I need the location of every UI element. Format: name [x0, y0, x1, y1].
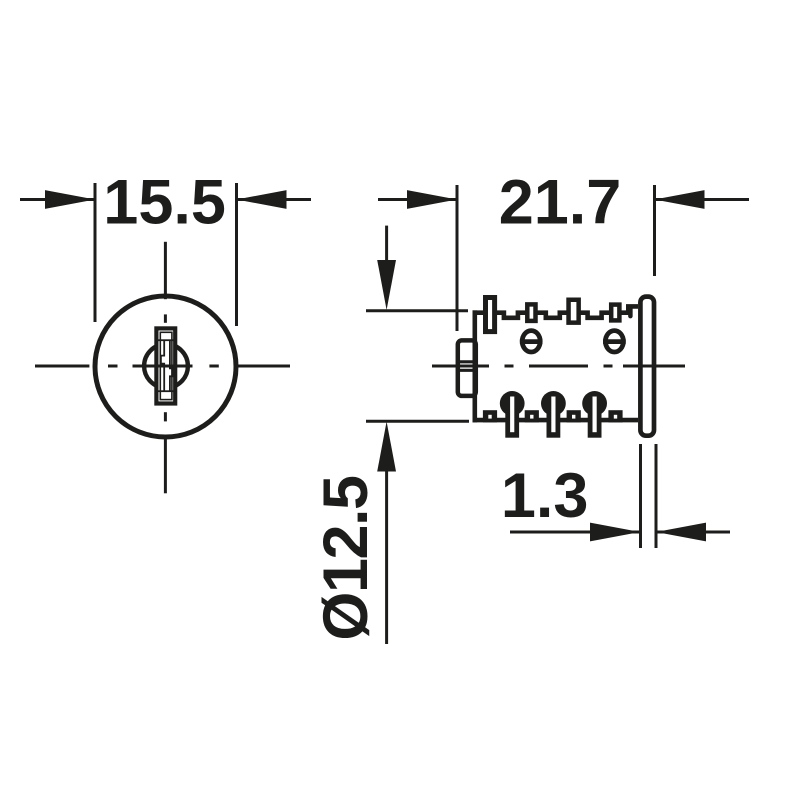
dimension 1.3 arrowhead left	[590, 523, 640, 542]
horizontal centerline left segment	[35, 365, 89, 368]
bottom edge tab 4	[608, 410, 622, 422]
dimension 1.3 leader line right	[656, 531, 730, 534]
dimension 15.5 arrowhead left	[45, 190, 95, 209]
screw head 1 ellipse	[522, 331, 540, 352]
dimension 21.7 extension line right	[653, 185, 656, 276]
plug circle	[144, 344, 188, 388]
bottom pin 2 slit	[551, 397, 555, 433]
side view centerline dot 2	[604, 365, 613, 368]
svg-text:15.5: 15.5	[103, 167, 226, 237]
vertical centerline top segment	[164, 242, 167, 299]
top pin 3	[569, 300, 579, 323]
top pin 2	[527, 304, 535, 321]
dimension 15.5 leader line left	[20, 198, 95, 201]
svg-text:Ø12.5: Ø12.5	[311, 476, 381, 641]
diameter 12.5 up arrowhead	[377, 422, 396, 472]
bottom edge tab 3 notch	[572, 415, 575, 419]
bottom pin 1 slit	[510, 397, 514, 433]
bottom edge tab 1 notch	[488, 415, 491, 419]
bottom pin 1 head	[500, 391, 525, 416]
vertical centerline dot bottom	[164, 412, 167, 421]
horizontal centerline dot left	[108, 365, 118, 368]
side view centerline long segment left	[432, 365, 489, 368]
body top castellated edge	[473, 306, 639, 317]
keyway upper chord line	[159, 339, 174, 341]
keyway lower chord line	[159, 390, 174, 392]
horizontal centerline right segment	[236, 365, 290, 368]
rear flange	[640, 297, 654, 436]
screw head 1 bar	[520, 339, 543, 344]
dimension 15.5 extension line right	[235, 183, 238, 326]
diameter 12.5 top extension line	[366, 309, 468, 312]
diameter 12.5 bottom extension line	[366, 420, 469, 423]
cam slot upper line	[458, 360, 476, 363]
bottom pin 1 stem	[505, 403, 519, 438]
dimension 1.3 extension line left	[639, 444, 642, 548]
bottom pin 3 slit	[593, 397, 597, 433]
bottom edge tab 3	[567, 410, 581, 422]
svg-text:1.3: 1.3	[501, 461, 589, 531]
vertical centerline bottom segment	[164, 436, 167, 493]
cam housing on left face	[458, 340, 476, 396]
side view centerline middle dash	[529, 365, 588, 368]
side view centerline dot 1	[505, 365, 514, 368]
key profile left edge	[161, 340, 164, 393]
bottom edge tab 2	[525, 410, 539, 422]
vertical centerline dot top	[164, 314, 167, 322]
diameter 12.5 lower leader line	[385, 466, 388, 644]
keyway inner rectangle	[160, 332, 172, 399]
svg-text:21.7: 21.7	[499, 168, 622, 238]
dimension 21.7 leader line right	[655, 198, 750, 201]
dimension 21.7 leader line left	[378, 198, 457, 201]
bottom edge tab 1	[483, 410, 497, 422]
dimension 21.7 extension line left	[456, 185, 459, 331]
screw head 2 bar	[603, 339, 626, 344]
bottom pin 2 stem	[547, 403, 561, 438]
bottom edge tab 2 notch	[530, 415, 533, 419]
front face outer circle	[95, 296, 236, 437]
dimension 15.5 arrowhead right	[237, 190, 287, 209]
keyway outer rectangle	[156, 328, 175, 403]
bottom pin 3 head	[582, 391, 607, 416]
bottom pin 2 head	[541, 391, 566, 416]
key profile right edge	[170, 340, 173, 393]
body bottom edge line	[473, 418, 639, 423]
top pin 4	[611, 305, 619, 321]
dimension 1.3 leader line left	[510, 531, 640, 534]
cam slot lower line	[458, 369, 476, 372]
bottom pin 3 stem	[588, 403, 602, 438]
dimension 15.5 extension line left	[94, 183, 97, 322]
screw head 2 ellipse	[605, 331, 623, 352]
dimension 15.5 leader line right	[237, 198, 312, 201]
top edge chamber tick near flange	[628, 309, 633, 317]
dimension 21.7 arrowhead right	[655, 190, 705, 209]
diameter 12.5 upper leader line	[385, 226, 388, 266]
horizontal centerline middle dash	[133, 365, 193, 368]
side view centerline right segment	[623, 365, 685, 368]
dimension 21.7 arrowhead left	[407, 190, 457, 209]
horizontal centerline dot right	[209, 365, 218, 368]
bottom edge tab 4 notch	[614, 415, 617, 419]
dimension 1.3 extension line right	[655, 444, 658, 548]
diameter 12.5 down arrowhead	[377, 260, 396, 310]
dimension 1.3 arrowhead right	[656, 523, 706, 542]
top pin 1	[486, 298, 495, 332]
body left edge	[472, 310, 477, 422]
